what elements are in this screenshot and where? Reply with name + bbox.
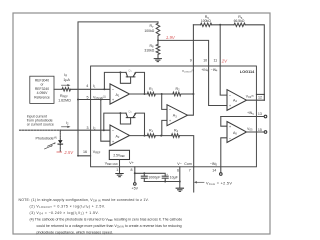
terminal -IN5 <box>220 173 223 176</box>
wire Q1 emitter to A1 output <box>136 72 145 94</box>
svg-text:12: 12 <box>258 95 262 99</box>
light arrows into photodiode <box>45 143 56 149</box>
wire VCMIN pin 5 into A1+ <box>78 99 110 101</box>
resistor R1 top <box>147 92 155 96</box>
svg-text:11: 11 <box>213 58 217 62</box>
svg-text:7: 7 <box>189 168 191 172</box>
resistor R2 top <box>173 92 181 96</box>
pin 12 box <box>256 94 264 100</box>
resistor R2 bottom <box>172 134 180 138</box>
svg-text:2.5VREF: 2.5VREF <box>113 154 125 159</box>
ground VREF GND <box>116 174 123 177</box>
node VREF corner <box>77 155 79 157</box>
op-amp input polarity signs <box>112 86 232 143</box>
current arrow IR <box>62 84 68 86</box>
ground divider <box>154 59 161 62</box>
node Q1 base tie <box>119 71 121 73</box>
notes text block <box>19 198 183 235</box>
svg-text:R1: R1 <box>149 87 154 92</box>
node C2 bottom <box>164 181 166 183</box>
wire Q1 base loop <box>120 72 130 83</box>
wire I2 node up to Q2 loop <box>104 113 126 130</box>
wire R1 to R2 <box>155 93 173 95</box>
svg-text:10µF: 10µF <box>170 176 179 180</box>
svg-text:1.62MΩ: 1.62MΩ <box>58 99 71 103</box>
node A3 feedback junction <box>192 93 194 95</box>
voltage reference U2 REF3040 box <box>30 76 54 103</box>
transistor Q2 <box>126 113 136 118</box>
node A2 output junction <box>144 135 146 137</box>
svg-text:14: 14 <box>212 168 216 172</box>
wire I2 input dashed (external source) <box>20 129 61 131</box>
ground V- <box>176 188 183 191</box>
wire +IN5 pin 13 row <box>221 116 264 118</box>
svg-text:VREF GND: VREF GND <box>105 162 118 167</box>
op-amp A5 <box>227 122 247 143</box>
resistor R1 bottom <box>147 134 155 138</box>
svg-text:8: 8 <box>131 168 133 172</box>
svg-text:Photodiode(4): Photodiode(4) <box>36 137 57 141</box>
label REF3040 box text <box>34 78 50 99</box>
wire A2 output row <box>130 135 148 137</box>
svg-text:15: 15 <box>258 128 262 132</box>
svg-text:NOTE: (1) In single-supply con: NOTE: (1) In single-supply configuration… <box>19 198 149 203</box>
capacitor C1 1000pF <box>141 173 147 181</box>
svg-text:66.5kΩ: 66.5kΩ <box>234 19 245 23</box>
svg-text:(3) VO4 = −0.249 × log(I1/I2): (3) VO4 = −0.249 × log(I1/I2) + 1.5V. <box>30 211 100 216</box>
svg-text:A2: A2 <box>116 135 120 140</box>
photodiode D1 <box>58 140 63 144</box>
wire I2 solid to pin 3 and A2- <box>60 129 110 131</box>
node Q2 base tie <box>119 112 121 114</box>
wire R2 to feedback node <box>181 93 193 95</box>
svg-text:Com: Com <box>184 162 192 166</box>
svg-text:10: 10 <box>203 58 207 62</box>
svg-text:+IN4: +IN4 <box>201 68 208 73</box>
op-amp A4 <box>227 90 247 111</box>
wire V+ pin 8 to +5V <box>134 167 136 183</box>
svg-text:(2) VLOGOUT = 0.375 × log(I1/I: (2) VLOGOUT = 0.375 × log(I1/I2) + 2.5V. <box>30 205 106 210</box>
svg-text:photodiode capacitance, which: photodiode capacitance, which increases … <box>37 231 113 235</box>
arrow VCom annotation <box>197 181 205 183</box>
svg-text:1µA: 1µA <box>63 78 70 82</box>
node V- ground tee <box>179 181 181 183</box>
wire REF output to RREF <box>54 88 62 90</box>
red annotations <box>63 35 228 155</box>
svg-text:9: 9 <box>190 58 192 62</box>
wire R5 to R6 <box>212 24 234 26</box>
svg-text:R1: R1 <box>149 129 154 134</box>
wire A3 output up to VLOGOUT pin 9 and R5 <box>188 25 194 115</box>
wire -IN4 pin 11 to A4- <box>220 25 227 95</box>
svg-text:+IN5: +IN5 <box>247 111 254 116</box>
svg-text:(4) The cathode of the photodi: (4) The cathode of the photodiode is ret… <box>30 217 183 222</box>
wire VCM vertical to A2+ <box>101 100 110 142</box>
node A3+ tee <box>160 135 162 137</box>
red tick photodiode node <box>57 151 63 153</box>
text layer <box>27 15 262 190</box>
op-amp A1 <box>110 84 130 104</box>
wire Com pin 7 below box <box>193 167 195 192</box>
resistor R7 100k (divider top) <box>156 22 160 40</box>
svg-text:R2: R2 <box>174 129 179 134</box>
node A1 output junction <box>144 93 146 95</box>
node VCMIN junction on VREF vertical <box>77 99 79 101</box>
svg-text:1: 1 <box>116 168 118 172</box>
wire R1b to R2b <box>155 135 171 137</box>
svg-text:100kΩ: 100kΩ <box>144 29 154 33</box>
svg-text:or current source: or current source <box>27 122 54 126</box>
node I1 A1- junction <box>103 88 105 90</box>
current arrow I2 <box>62 126 68 128</box>
wire A5- to -IN5 pin 14 terminal <box>221 138 227 173</box>
svg-text:316kΩ: 316kΩ <box>144 49 154 53</box>
wire bypass top rail <box>135 173 165 176</box>
wire photodiode dashed branch <box>59 130 61 151</box>
wire A3- input <box>162 94 167 109</box>
svg-text:Reference: Reference <box>34 95 50 99</box>
node C1 top stub <box>143 172 145 174</box>
node A3- tee <box>161 93 163 95</box>
wire +IN5 to A5+ <box>221 117 227 127</box>
wire I1 node up to Q1 collector loop <box>104 72 126 89</box>
resistor RREF 1.62Mohm <box>62 88 70 91</box>
svg-text:A4: A4 <box>233 99 237 104</box>
resistor R5 100k <box>201 23 212 26</box>
wire Q2 base loop <box>120 113 130 124</box>
wire VREF net: pin16 left, up the long vertical, to divider top <box>78 22 158 156</box>
node V+ bypass tee <box>134 172 136 174</box>
op-amp A3 <box>167 105 188 126</box>
svg-text:1.9V: 1.9V <box>166 35 176 40</box>
wire A5 output VO5 pin 15 <box>247 131 265 133</box>
resistor R6 66.5k <box>234 23 245 26</box>
svg-text:could be returned to a voltage: could be returned to a voltage more posi… <box>37 224 182 229</box>
svg-text:2.5V: 2.5V <box>63 150 74 155</box>
svg-text:5: 5 <box>87 95 89 99</box>
internal 2.5V reference box <box>109 150 129 159</box>
svg-text:LOG114: LOG114 <box>240 69 255 74</box>
node A1+/A2+ tee <box>100 99 102 101</box>
LOG114 IC box U1 <box>91 66 257 167</box>
svg-text:4: 4 <box>86 84 88 88</box>
capacitor C2 10uF <box>162 176 168 181</box>
svg-text:3: 3 <box>87 126 89 130</box>
op-amp A2 <box>110 125 130 146</box>
svg-text:1000pF: 1000pF <box>148 176 161 180</box>
terminal +5V <box>134 183 137 186</box>
svg-text:VO5: VO5 <box>247 127 253 132</box>
svg-text:13: 13 <box>258 112 262 116</box>
wire A1 output row <box>130 93 148 95</box>
svg-text:R2: R2 <box>176 87 181 92</box>
wire R2b to Com pin 7 <box>180 136 194 167</box>
wire VREF GND pin 1 to ground <box>119 160 121 174</box>
terminal +IN5 <box>264 115 267 118</box>
node R5/R6 junction <box>219 24 221 26</box>
node divider 1.9V junction <box>157 39 159 41</box>
wire A3+ input <box>162 120 167 135</box>
svg-text:6: 6 <box>177 168 179 172</box>
svg-text:−IN4: −IN4 <box>211 68 218 73</box>
svg-text:V−: V− <box>177 162 182 166</box>
svg-text:16: 16 <box>83 150 87 154</box>
resistor R8 316k (divider bottom) <box>156 44 160 58</box>
wire Q2 emitter to A2 output <box>136 113 145 136</box>
node I2 A2- junction <box>103 129 105 131</box>
border frame <box>13 13 270 234</box>
wire A4 output VO4 pin 12 <box>247 99 265 101</box>
wire RREF to pin 4 I1 node <box>71 88 111 90</box>
svg-text:+5V: +5V <box>132 186 139 190</box>
transistor Q1 <box>126 72 136 77</box>
wire R6 to VO4 feedback <box>245 25 264 95</box>
terminal VO5 <box>264 131 267 134</box>
wire bypass bottom rail <box>144 181 180 183</box>
wire pin9 vertical to R5 <box>193 24 200 26</box>
svg-text:100kΩ: 100kΩ <box>201 19 211 23</box>
wire divider to +IN4 pin 10 and A4+ <box>158 40 227 105</box>
svg-text:V+: V+ <box>129 161 134 165</box>
wire V- pin 6 down <box>179 167 181 188</box>
